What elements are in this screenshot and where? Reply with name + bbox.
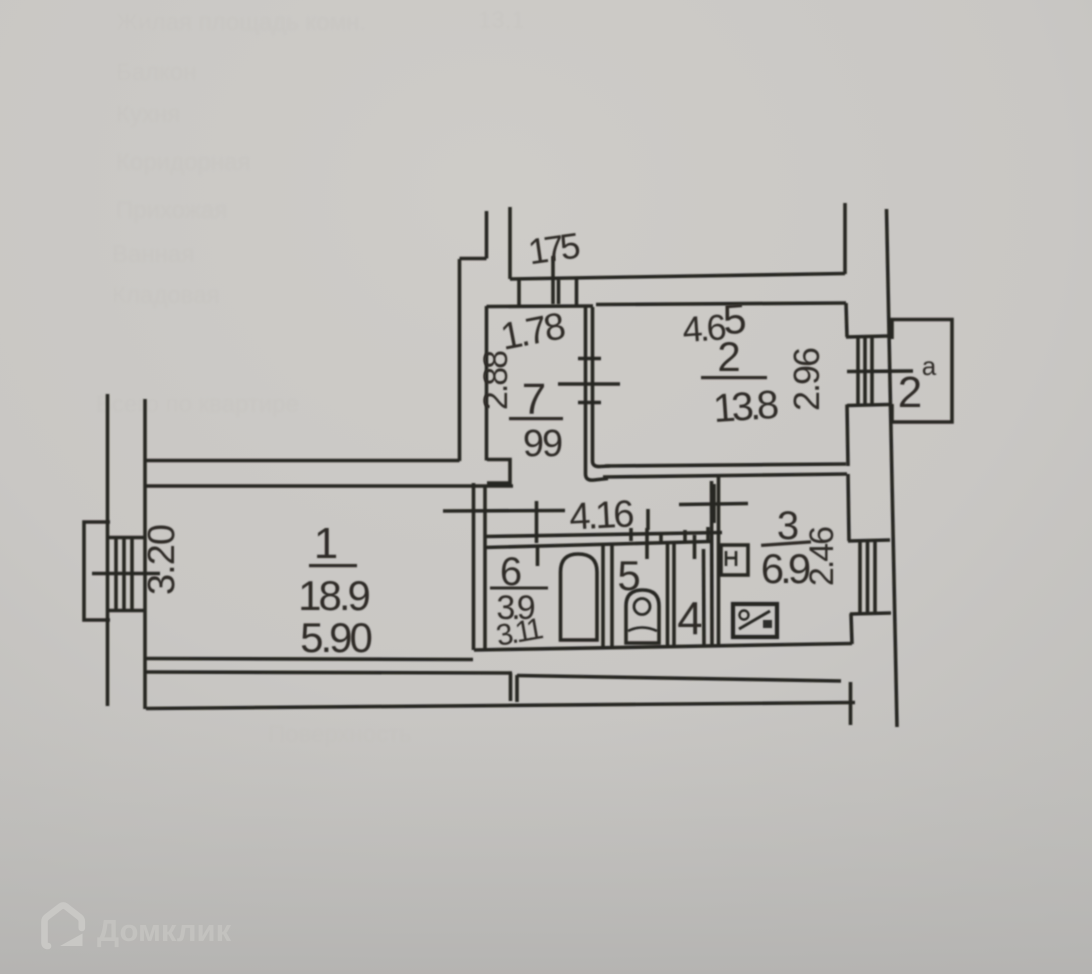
svg-text:Кладовая: Кладовая	[112, 282, 220, 309]
wall: room 1 top outer	[145, 459, 460, 463]
svg-text:175: 175	[526, 225, 582, 273]
dimension labels	[141, 225, 937, 661]
wall: room 7 top inner	[487, 304, 594, 308]
svg-text:13,1: 13,1	[478, 7, 525, 34]
fraction line room 6	[490, 587, 548, 590]
corridor dimension tie line right	[679, 504, 748, 505]
svg-text:Коридорная: Коридорная	[116, 149, 250, 176]
svg-text:99: 99	[523, 423, 562, 465]
corridor dimension tie line left	[443, 509, 565, 513]
svg-text:5: 5	[617, 552, 640, 599]
wall: room 1 bottom inner	[146, 659, 473, 660]
svg-text:Домклик: Домклик	[97, 913, 232, 948]
room 7 tie line	[558, 382, 620, 386]
wall: corridor south upper line	[484, 533, 722, 537]
step ticks below room 1 wall	[509, 673, 513, 701]
svg-text:2.96: 2.96	[786, 348, 827, 411]
wall: room 1 / bath divider	[472, 483, 476, 650]
wall: entry step horizontal	[460, 257, 487, 261]
wall: stub up right of entry	[508, 207, 512, 279]
wall: entry west vertical	[458, 259, 462, 461]
wall: left inner	[143, 399, 147, 709]
svg-text:Ванная: Ванная	[112, 241, 194, 268]
svg-text:Балкон: Балкон	[116, 59, 196, 86]
wall: right inner between rooms 2 and 3	[848, 474, 849, 541]
window room 1 axis tick	[92, 572, 160, 576]
wall: right outer long	[887, 209, 898, 727]
svg-text:Прихожая: Прихожая	[116, 197, 227, 224]
wall: room 1 bottom outer	[145, 672, 512, 673]
svg-text:Всего по квартире: Всего по квартире	[96, 391, 299, 418]
fraction line room 7	[509, 417, 563, 420]
wall: bottom right corner vertical	[849, 682, 853, 725]
svg-text:2: 2	[717, 333, 740, 380]
wall: room 2 bottom outer / room 3 top	[603, 474, 847, 477]
entry door jamb left	[517, 279, 521, 306]
wall: room 7 bottom block	[487, 460, 510, 484]
svg-text:13.8: 13.8	[712, 383, 780, 431]
svg-text:7: 7	[522, 375, 546, 424]
svg-text:Жилая площадь комн.: Жилая площадь комн.	[116, 9, 366, 36]
window room 3 hatch	[848, 540, 890, 541]
wall: room 3 left	[717, 476, 721, 647]
corridor dimension tick right of text	[646, 509, 650, 530]
fraction line room 1	[309, 564, 357, 567]
svg-text:3.20: 3.20	[141, 525, 183, 595]
svg-text:4: 4	[677, 592, 703, 644]
stove room 3	[733, 604, 777, 637]
window sill bay room 1	[84, 522, 110, 620]
window room 1 hatch	[107, 536, 146, 540]
fraction line room 3	[761, 540, 811, 547]
door ticks in divider 7/2	[578, 357, 601, 361]
house icon	[45, 906, 82, 946]
svg-text:2: 2	[898, 368, 922, 417]
svg-text:1: 1	[314, 519, 338, 568]
wall: bath section bottom inner	[474, 644, 852, 651]
wall: stub up left of entry	[485, 211, 489, 259]
entry door jamb right	[575, 279, 579, 307]
wall: room 7 left	[485, 306, 489, 461]
watermark Domklik	[45, 906, 232, 948]
window room 2 hatch	[846, 336, 888, 337]
door jamb ticks along corridor wall	[536, 545, 540, 566]
wall: room 7 / room 2 divider	[586, 307, 609, 480]
ink drawing	[84, 203, 952, 727]
svg-text:2.88: 2.88	[477, 351, 515, 410]
wall: left outer	[106, 394, 110, 706]
svg-text:Поверхность: Поверхность	[268, 721, 412, 748]
wall: bath / wc dividers	[601, 543, 605, 648]
corridor dimension tick far right	[712, 484, 716, 523]
bathtub	[561, 554, 598, 640]
wall: right inner below window 2	[847, 405, 848, 467]
entry door dimension line 175	[551, 256, 555, 304]
wall: corridor south lower line	[484, 542, 710, 548]
svg-text:5.90: 5.90	[300, 614, 371, 661]
wall: room 3 / 4 divider	[710, 481, 714, 647]
window room 2 axis tick into balcony	[847, 369, 913, 373]
svg-text:18.9: 18.9	[298, 572, 369, 619]
svg-text:a: a	[922, 351, 937, 381]
fraction line room 2	[701, 376, 767, 379]
ghost bleed-through text rows top-left	[96, 7, 525, 748]
wall: right inner above window 2	[846, 303, 847, 337]
vent box room 3	[721, 545, 748, 575]
balcony 2a outline	[892, 320, 952, 423]
svg-text:4.16: 4.16	[568, 493, 634, 538]
wall: right inner below window 3	[851, 614, 852, 645]
wall: bottom long outer line	[146, 703, 855, 709]
wall: room 1 top inner	[145, 484, 513, 488]
svg-text:Кухня: Кухня	[116, 101, 180, 128]
wall: room 2 bottom inner	[605, 464, 846, 466]
svg-text:2.46: 2.46	[803, 527, 841, 586]
wall: room 2 top inner	[596, 303, 846, 305]
corridor dimension tick	[535, 501, 539, 543]
wall: bath section bottom outer	[517, 676, 841, 682]
wall: right top stub	[843, 203, 847, 274]
washbasin room 5	[626, 590, 659, 643]
wall: top outer long	[510, 274, 845, 280]
